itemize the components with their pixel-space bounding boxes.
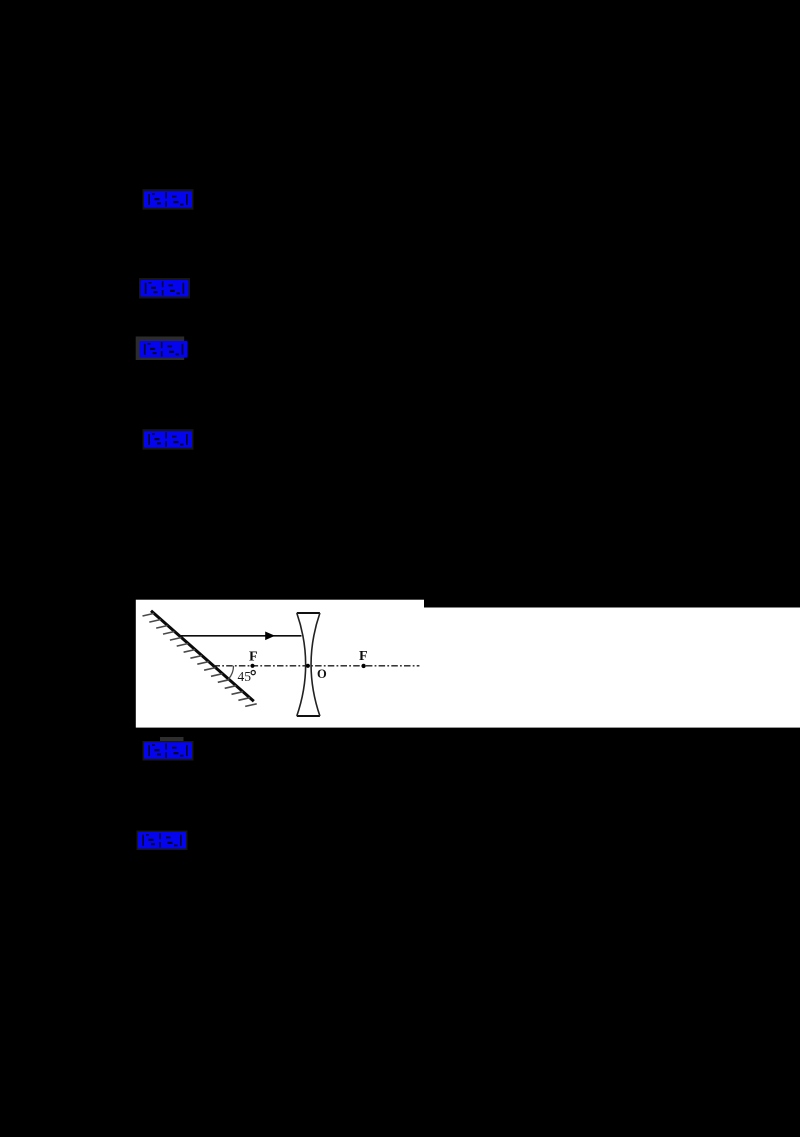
concave lens top edge — [297, 612, 320, 614]
highlight label A6 (blue CJK tip tag) — [137, 831, 188, 851]
svg-text:F: F — [249, 650, 258, 665]
45 degree arc — [229, 666, 234, 679]
svg-text:45: 45 — [238, 669, 252, 684]
answer label A1 (blue CJK answer tag) — [143, 189, 194, 210]
figure white background left part (diagram image) — [136, 600, 424, 728]
concave lens right surface — [311, 613, 320, 716]
svg-text:O: O — [317, 667, 327, 681]
answer label A4 (blue CJK answer tag) — [143, 429, 194, 450]
concave lens left surface — [297, 613, 306, 716]
degree symbol of 45° — [251, 671, 255, 675]
concave lens bottom edge — [297, 715, 320, 717]
right focal point dot — [361, 664, 365, 668]
plane mirror line — [151, 611, 254, 701]
left focal point dot — [250, 664, 254, 668]
mirror hatching — [143, 613, 257, 706]
small grey artifact above analysis label A5 — [160, 737, 184, 742]
ray arrowhead — [265, 632, 275, 641]
figure white background right band — [424, 608, 800, 728]
analysis label A5 (blue CJK analysis tag) — [143, 741, 194, 761]
svg-text:F: F — [359, 649, 368, 664]
principal axis (dash-dot) — [214, 665, 420, 667]
analysis label A2 (blue CJK analysis tag) — [139, 278, 190, 299]
lens optical centre dot — [306, 664, 310, 668]
highlight label A3 (blue CJK tip tag) — [136, 337, 185, 361]
incident ray — [180, 635, 302, 637]
